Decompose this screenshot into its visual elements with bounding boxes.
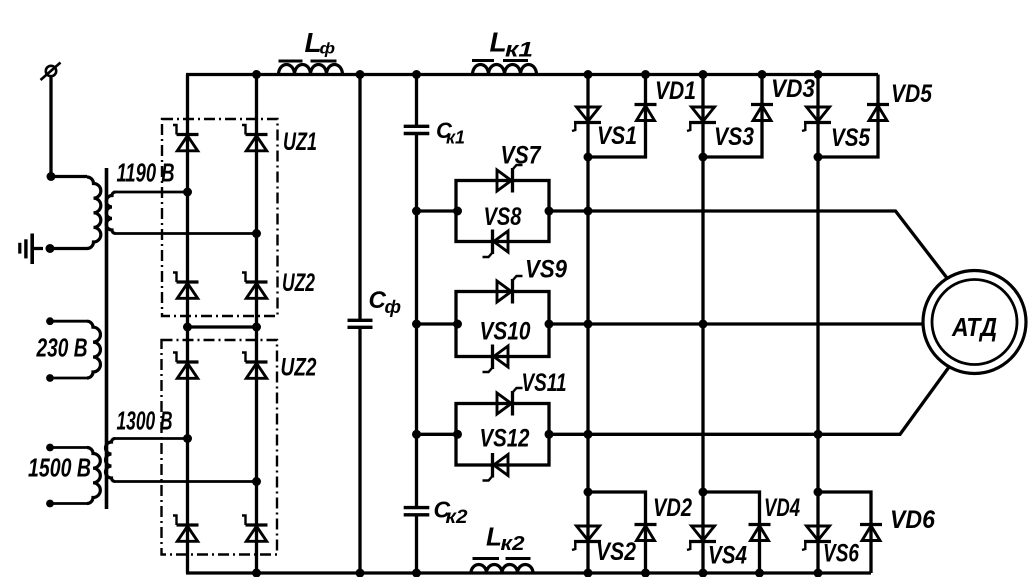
diode VD4 xyxy=(749,525,771,541)
label VS4 xyxy=(708,542,747,570)
secondary winding 1300V xyxy=(106,439,116,482)
node diode top bus xyxy=(758,70,767,79)
node top bus bridge xyxy=(252,70,261,79)
wire Cf branch lower xyxy=(358,327,361,573)
wire Cf branch upper xyxy=(358,75,361,321)
svg-text:UZ1: UZ1 xyxy=(283,128,317,156)
svg-text:к1: к1 xyxy=(446,128,465,148)
primary winding xyxy=(87,177,101,249)
svg-text:UZ2: UZ2 xyxy=(282,269,315,297)
svg-text:VS12: VS12 xyxy=(480,425,530,453)
node lower junction VS2 xyxy=(584,488,593,497)
label VS2 xyxy=(596,538,636,566)
svg-text:1190 В: 1190 В xyxy=(117,158,175,188)
thyristor VS10 xyxy=(483,345,509,373)
svg-text:к2: к2 xyxy=(501,533,525,555)
capacitor Ck2 xyxy=(404,508,430,515)
label VS11 xyxy=(522,369,567,397)
svg-text:к2: к2 xyxy=(446,507,468,528)
terminal 1500V bottom xyxy=(46,500,54,508)
wire pantograph to primary xyxy=(51,77,87,177)
label VS3 xyxy=(714,123,754,151)
bridge frame UZ2 (lower) xyxy=(162,340,278,555)
node VS6 bottom bus xyxy=(814,569,823,577)
wire top bus xyxy=(186,73,878,76)
node 1300V bottom tap xyxy=(252,477,261,486)
diode VD3 xyxy=(751,105,773,121)
svg-text:VD4: VD4 xyxy=(764,494,800,522)
wire phase line 2 xyxy=(549,322,925,325)
svg-text:VS7: VS7 xyxy=(501,142,542,170)
label VS8 xyxy=(484,203,522,231)
svg-text:230 В: 230 В xyxy=(36,333,88,363)
node Ck bottom xyxy=(412,569,421,577)
node diode bottom bus xyxy=(755,569,764,577)
svg-text:VS11: VS11 xyxy=(522,369,567,397)
motor ATD outer xyxy=(923,271,1026,374)
pantograph xyxy=(41,63,61,81)
node 1300V top tap xyxy=(183,434,192,443)
thyristor UZ2 right (row2) xyxy=(242,273,268,299)
svg-text:1500 В: 1500 В xyxy=(28,453,91,483)
wire bottom bus xyxy=(186,571,871,574)
wire Ck branch upper xyxy=(415,75,418,127)
node Ck line2 xyxy=(412,320,421,329)
thyristor UZ1 left xyxy=(173,125,199,151)
thyristor bridge2 left (row4) xyxy=(173,516,199,542)
svg-text:VD3: VD3 xyxy=(771,75,815,103)
wire 1500V bottom lead xyxy=(50,502,87,505)
node VS8 loop left xyxy=(453,207,462,216)
svg-text:L: L xyxy=(486,522,502,552)
capacitor Ck1 xyxy=(404,126,430,133)
node Ck top xyxy=(412,70,421,79)
wire Ck branch middle xyxy=(415,134,418,508)
wire leg VS5/VS6 xyxy=(816,75,819,574)
thyristor VS8 xyxy=(483,230,509,258)
diode VD2 xyxy=(635,525,657,541)
node inter-bridge left xyxy=(183,323,192,332)
label 1300V xyxy=(117,406,173,436)
label ATD xyxy=(951,312,997,342)
node Ck line3 xyxy=(412,430,421,439)
label Lk2 xyxy=(486,522,525,556)
wire VD2 branch xyxy=(588,492,646,573)
label 1190V xyxy=(117,158,175,188)
thyristor VS6 xyxy=(802,526,831,550)
wire 230V bottom lead xyxy=(50,377,87,380)
label VS9 xyxy=(525,256,567,284)
wire bridge left leg xyxy=(186,75,189,574)
svg-text:VS4: VS4 xyxy=(708,542,747,570)
node VS2 bottom bus xyxy=(584,569,593,577)
wire leg VS3/VS4 xyxy=(701,75,704,574)
node VS4 bottom bus xyxy=(699,569,708,577)
label 1500V xyxy=(28,453,91,483)
inductor Lk1 xyxy=(472,61,537,75)
svg-text:ф: ф xyxy=(320,41,336,58)
node line3 loop right xyxy=(545,430,554,439)
wire bridge right leg xyxy=(255,75,258,574)
wire Ck branch lower xyxy=(415,515,418,573)
node VS10 loop left xyxy=(453,320,462,329)
wire VD1 branch xyxy=(588,75,646,158)
node line2 leg1 xyxy=(584,320,593,329)
node 1190V top tap xyxy=(183,188,192,197)
thyristor VS3 xyxy=(687,107,716,131)
wire phase line 1 xyxy=(549,211,947,278)
winding 230V xyxy=(87,321,100,378)
node line3 leg3 xyxy=(814,430,823,439)
label VS5 xyxy=(831,124,871,152)
node diode top bus xyxy=(641,70,650,79)
thyristor UZ1 right xyxy=(242,125,268,151)
wire Ck to VS8 loop xyxy=(417,209,457,212)
node line1 leg1 xyxy=(584,207,593,216)
node line2 leg2 xyxy=(699,320,708,329)
label VS6 xyxy=(823,540,860,568)
svg-text:АТД: АТД xyxy=(951,312,997,342)
node bottom bus bridge xyxy=(252,569,261,577)
thyristor VS1 xyxy=(572,107,601,131)
wire 230V top lead xyxy=(50,320,87,323)
node Cf top xyxy=(356,70,365,79)
motor ATD inner xyxy=(932,280,1017,365)
svg-text:VD5: VD5 xyxy=(891,80,933,108)
label Lk1 xyxy=(490,27,534,62)
thyristor UZ2 left (row2) xyxy=(173,273,199,299)
thyristor bridge2 right (row4) xyxy=(242,516,268,542)
label VD5 xyxy=(891,80,933,108)
node VS3 top bus xyxy=(699,70,708,79)
terminal 230V top xyxy=(46,317,54,325)
wire Ck to VS12 loop xyxy=(417,433,457,436)
secondary winding 1190V xyxy=(106,192,115,234)
node lower junction VS4 xyxy=(699,488,708,497)
svg-text:VD1: VD1 xyxy=(655,77,696,105)
label VS1 xyxy=(597,122,637,150)
svg-text:VD6: VD6 xyxy=(890,506,936,534)
wire leg VS1/VS2 xyxy=(586,75,589,574)
svg-text:VS3: VS3 xyxy=(714,123,754,151)
node line3 leg1 xyxy=(584,430,593,439)
wire Ck to VS10 loop xyxy=(417,322,457,325)
svg-text:VS10: VS10 xyxy=(480,318,531,346)
node 1190V bottom tap xyxy=(252,229,261,238)
svg-text:VS1: VS1 xyxy=(597,122,637,150)
svg-text:VS5: VS5 xyxy=(831,124,871,152)
ground xyxy=(20,234,43,265)
node inter-bridge right xyxy=(252,323,261,332)
loop frame VS9/VS10 xyxy=(456,292,549,357)
thyristor VS7 xyxy=(497,165,523,193)
label VD1 xyxy=(655,77,696,105)
node diode bottom bus xyxy=(641,569,650,577)
thyristor VS12 xyxy=(483,453,509,481)
node phase junction VS3 xyxy=(699,153,708,162)
inductor Lf xyxy=(279,61,343,75)
thyristor VS4 xyxy=(687,526,716,550)
capacitor Cf xyxy=(348,320,373,327)
loop frame VS7/VS8 xyxy=(456,181,549,242)
transformer core xyxy=(105,168,109,509)
wire VD5 branch xyxy=(818,75,878,158)
thyristor VS2 xyxy=(572,526,601,550)
wire phase line 3 xyxy=(549,367,949,434)
thyristor VS9 xyxy=(497,276,523,304)
wire 1300V bottom tap xyxy=(115,480,257,483)
thyristor UZ2 right (row3) xyxy=(242,353,268,379)
svg-text:1300 В: 1300 В xyxy=(117,406,173,436)
svg-text:VD2: VD2 xyxy=(653,494,692,522)
node VS12 loop left xyxy=(453,430,462,439)
label VS10 xyxy=(480,318,531,346)
diode VD1 xyxy=(635,105,657,121)
label UZ1 xyxy=(283,128,317,156)
node pantograph-primary xyxy=(47,172,56,181)
diode VD5 xyxy=(867,105,889,121)
terminal 230V bottom xyxy=(46,374,54,382)
node primary-ground xyxy=(46,244,55,253)
node lower junction VS6 xyxy=(814,488,823,497)
node phase junction VS5 xyxy=(814,153,823,162)
node VS1 top bus xyxy=(584,70,593,79)
svg-text:ф: ф xyxy=(385,297,402,317)
wire 1190V top tap xyxy=(116,191,188,194)
label VD2 xyxy=(653,494,692,522)
svg-text:VS9: VS9 xyxy=(525,256,567,284)
svg-text:VS6: VS6 xyxy=(823,540,860,568)
label VS12 xyxy=(480,425,530,453)
wire VD4 branch xyxy=(703,492,760,573)
wire inter-bridge link xyxy=(188,325,257,328)
thyristor VS5 xyxy=(802,107,831,131)
svg-text:VS2: VS2 xyxy=(596,538,636,566)
wire VD6 branch xyxy=(818,492,871,573)
wire primary to ground xyxy=(50,247,88,250)
thyristor UZ2 left (row3) xyxy=(173,353,199,379)
label Cf xyxy=(369,287,402,317)
label Lf xyxy=(305,27,336,58)
thyristor VS11 xyxy=(497,388,523,416)
node VS5 top bus xyxy=(814,70,823,79)
winding 1500V xyxy=(87,448,100,504)
node line1 loop right xyxy=(545,207,554,216)
label 230V xyxy=(36,333,88,363)
label VD6 xyxy=(890,506,936,534)
label VS7 xyxy=(501,142,542,170)
wire 1190V bottom tap xyxy=(116,232,257,235)
diode VD6 xyxy=(860,525,882,541)
label UZ2 (upper) xyxy=(282,269,315,297)
node Ck line1 xyxy=(412,207,421,216)
label Ck1 xyxy=(436,118,465,148)
node phase junction VS1 xyxy=(584,153,593,162)
svg-text:VS8: VS8 xyxy=(484,203,522,231)
svg-text:UZ2: UZ2 xyxy=(281,354,317,382)
bridge frame UZ1/UZ2 (upper) xyxy=(162,119,278,316)
svg-text:к1: к1 xyxy=(505,39,533,62)
label VD3 xyxy=(771,75,815,103)
label VD4 xyxy=(764,494,800,522)
node Cf bottom xyxy=(356,569,365,577)
terminal 1500V top xyxy=(46,444,54,452)
wire VD3 branch xyxy=(703,75,762,158)
label UZ2 (lower) xyxy=(281,354,317,382)
wire 1300V top tap xyxy=(115,437,188,440)
node line2 loop right xyxy=(545,320,554,329)
label Ck2 xyxy=(434,497,468,529)
wire 1500V top lead xyxy=(50,446,87,449)
inductor Lk2 xyxy=(471,559,533,574)
loop frame VS11/VS12 xyxy=(456,404,549,466)
